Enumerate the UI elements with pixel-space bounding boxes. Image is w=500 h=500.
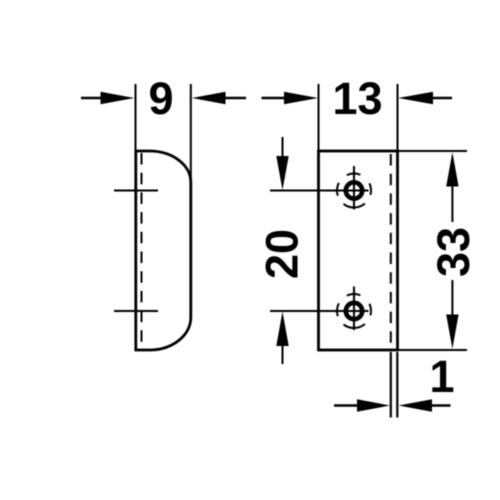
upper hole: vertical center line [353,166,355,210]
dimension 13: left shaft [262,97,287,99]
dimension 1: right arrowhead [399,399,433,411]
side view: extension line right (9) [190,84,192,183]
upper hole: thread arc left [337,183,339,196]
dimension 20: top shaft [282,137,284,157]
front view: extension line right (13) [397,84,399,151]
lower hole: horizontal center line [270,310,369,312]
svg-text:13: 13 [332,73,382,124]
dimension 20: bottom arrowhead [276,312,288,347]
dimension 33: top extension line [398,150,467,152]
lower hole: thread arc bottom [344,324,365,328]
dimension 20: bottom shaft [282,345,284,364]
svg-text:20: 20 [257,229,308,279]
lower hole: thread arc left [337,303,339,316]
front view: plate rectangle [319,151,398,350]
dimension 9: right arrowhead [192,92,226,105]
dimension 9: right shaft [223,97,246,99]
svg-text:9: 9 [148,73,173,124]
svg-text:33: 33 [428,227,479,277]
upper hole: thread arc right [369,183,371,195]
upper hole: bore circle [346,182,362,198]
dimension 13: left arrowhead [284,92,318,105]
side view: center line upper hole [114,190,158,192]
upper hole: thread arc bottom [344,204,365,208]
svg-text:1: 1 [429,351,454,402]
side view: hidden dashed line [141,153,143,347]
dimension 13: right shaft [431,97,452,99]
dimension 1: right shaft [431,404,451,406]
dimension 1: left shaft [334,404,358,406]
dimension 20: top arrowhead [276,156,288,190]
dimension 33: bottom shaft [451,280,453,316]
side view: extension line left (9) [135,84,137,151]
side view: center line lower hole [114,310,158,312]
side view: part profile outline [136,151,191,350]
front view: hidden dashed line near right edge [390,154,392,347]
dimension 1: right extension line [396,352,398,418]
dimension 33: bottom arrowhead [446,315,458,349]
upper hole: horizontal center line [270,190,369,192]
dimension 33: top arrowhead [446,152,458,186]
lower hole: thread arc top [347,294,361,296]
lower hole: thread arc right [369,304,371,316]
upper hole: thread arc top [347,174,361,176]
dimension 33: top shaft [451,185,453,222]
dimension 9: left shaft [81,97,103,99]
dimension 1: left extension line [390,352,392,418]
lower hole: vertical center line [353,287,355,331]
lower hole: bore circle [346,303,362,319]
dimension 33: bottom extension line [398,349,467,351]
dimension 13: right arrowhead [398,92,433,105]
front view: extension line left (13) [318,84,320,151]
dimension 9: left arrowhead [101,92,135,105]
dimension 1: left arrowhead [357,399,390,411]
